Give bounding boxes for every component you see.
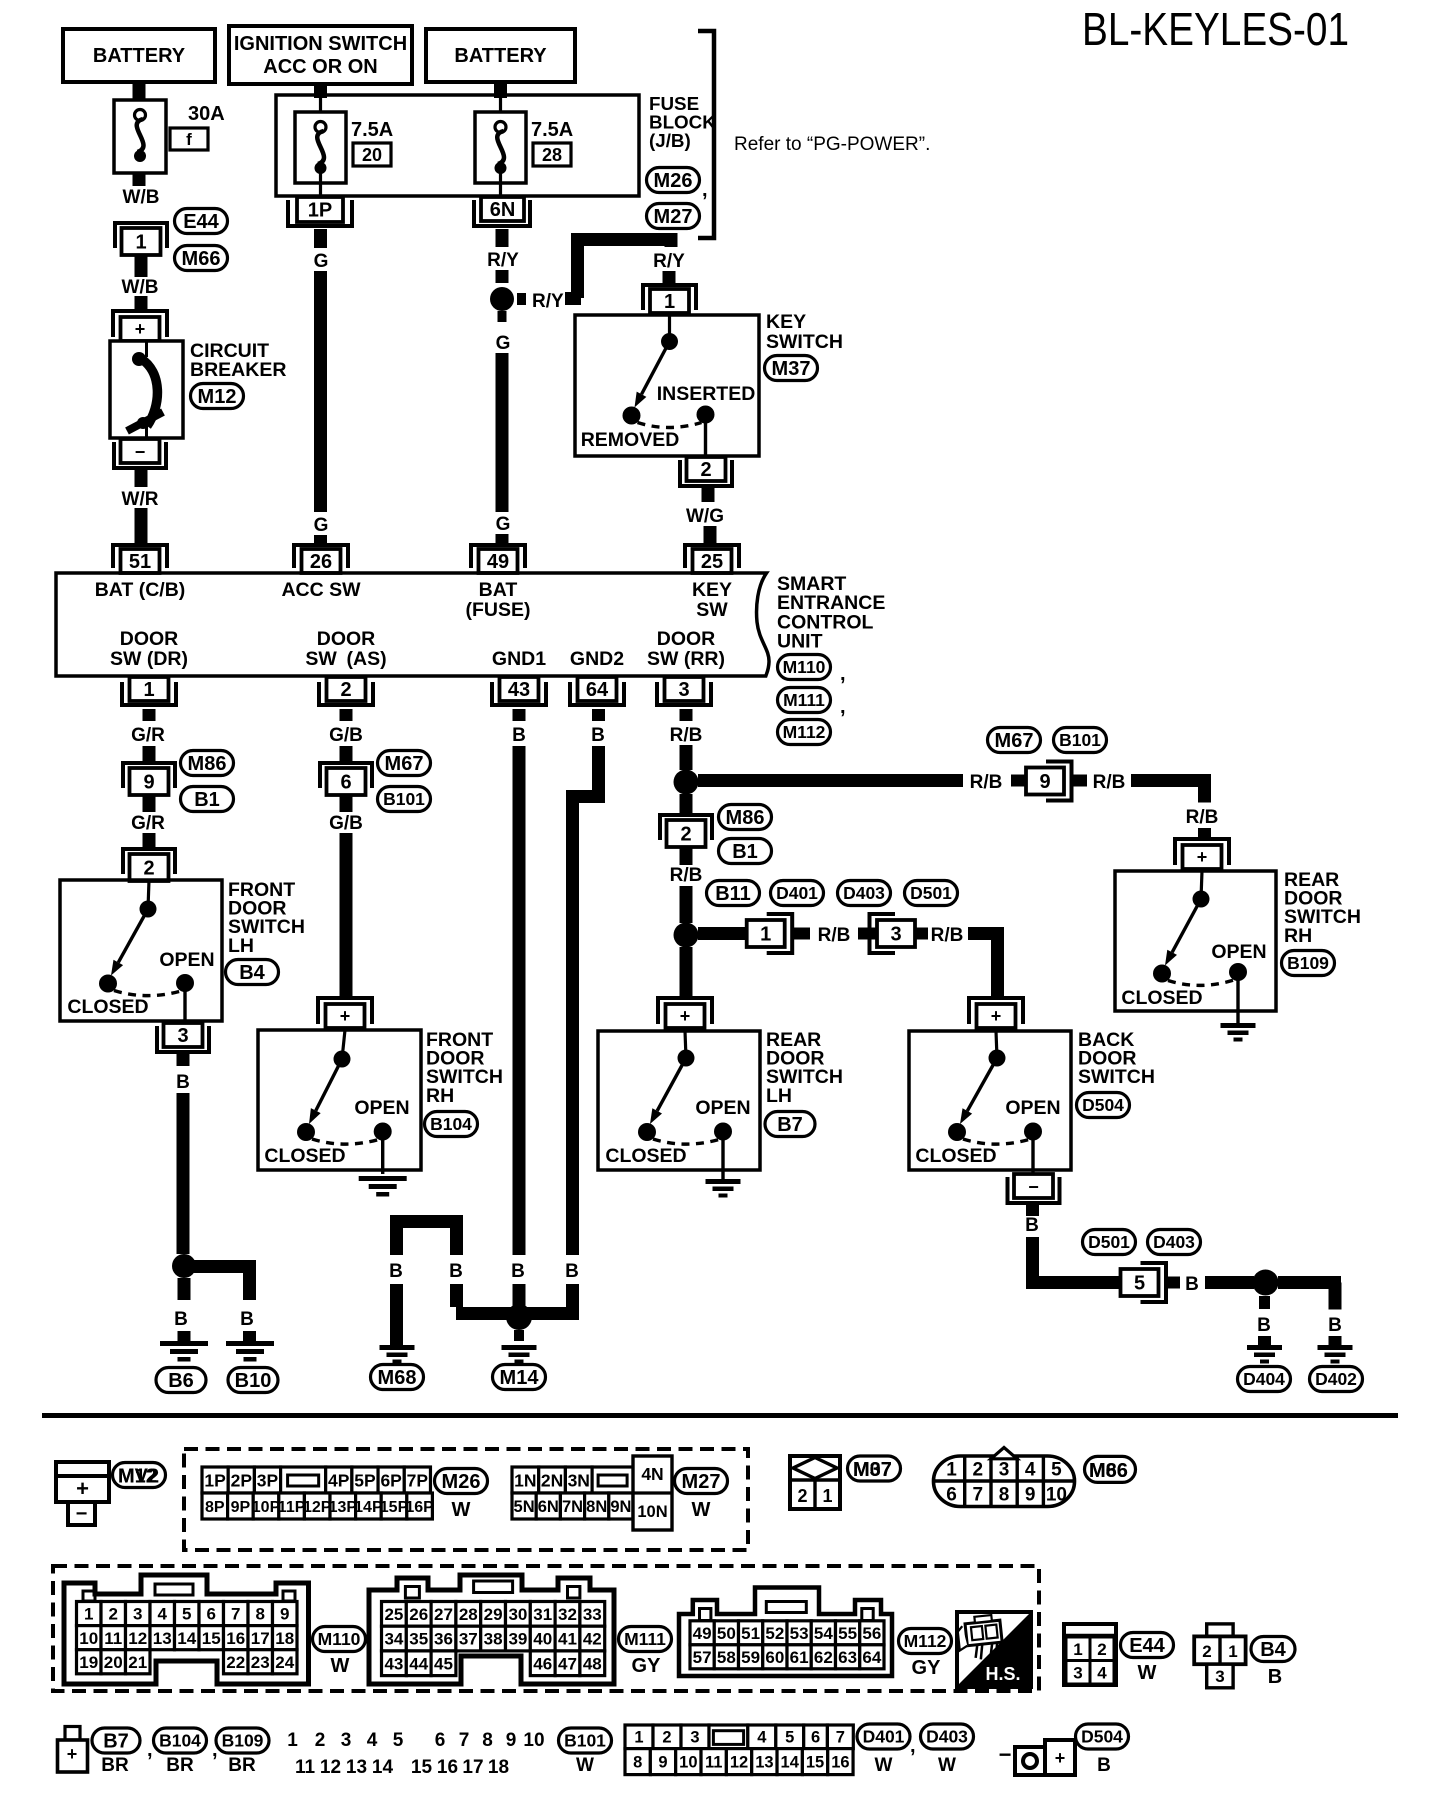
svg-text:36: 36 bbox=[434, 1630, 453, 1649]
svg-text:62: 62 bbox=[814, 1648, 833, 1667]
svg-text:UNIT: UNIT bbox=[777, 631, 823, 653]
svg-text:D501: D501 bbox=[1088, 1232, 1130, 1252]
svg-text:4: 4 bbox=[1025, 1460, 1036, 1481]
svg-text:1: 1 bbox=[822, 1486, 832, 1506]
svg-text:−: − bbox=[135, 442, 146, 462]
svg-text:7: 7 bbox=[973, 1485, 984, 1506]
svg-text:BAT: BAT bbox=[479, 579, 518, 601]
svg-text:25: 25 bbox=[384, 1605, 403, 1624]
svg-text:+: + bbox=[680, 1006, 691, 1026]
svg-text:2: 2 bbox=[797, 1486, 807, 1506]
svg-text:26: 26 bbox=[310, 551, 332, 573]
svg-text:BATTERY: BATTERY bbox=[93, 45, 186, 67]
svg-text:4: 4 bbox=[367, 1730, 378, 1751]
svg-text:2: 2 bbox=[1097, 1640, 1106, 1659]
svg-text:59: 59 bbox=[741, 1648, 760, 1667]
svg-text:29: 29 bbox=[484, 1605, 503, 1624]
svg-text:M86: M86 bbox=[1089, 1460, 1128, 1482]
svg-text:9N: 9N bbox=[610, 1498, 631, 1516]
svg-text:D404: D404 bbox=[1243, 1369, 1285, 1389]
svg-text:,: , bbox=[702, 179, 708, 201]
svg-text:5P: 5P bbox=[354, 1470, 376, 1490]
svg-text:3: 3 bbox=[999, 1460, 1010, 1481]
svg-text:M112: M112 bbox=[783, 722, 826, 742]
svg-text:37: 37 bbox=[459, 1630, 478, 1649]
svg-text:+: + bbox=[1055, 1748, 1066, 1768]
svg-text:8: 8 bbox=[999, 1485, 1010, 1506]
svg-text:B6: B6 bbox=[168, 1370, 194, 1392]
svg-text:R/Y: R/Y bbox=[653, 251, 685, 272]
svg-text:,: , bbox=[840, 696, 846, 718]
svg-text:R/B: R/B bbox=[670, 865, 703, 886]
svg-text:SW (AS): SW (AS) bbox=[305, 648, 386, 670]
svg-text:G/B: G/B bbox=[329, 813, 363, 834]
svg-text:6P: 6P bbox=[380, 1470, 402, 1490]
svg-text:7: 7 bbox=[231, 1605, 240, 1624]
svg-text:18: 18 bbox=[488, 1757, 509, 1778]
svg-text:M12: M12 bbox=[198, 386, 237, 408]
svg-text:2: 2 bbox=[973, 1460, 984, 1481]
svg-text:6: 6 bbox=[340, 772, 351, 794]
svg-text:44: 44 bbox=[409, 1654, 428, 1673]
svg-text:M68: M68 bbox=[378, 1367, 417, 1389]
svg-text:1: 1 bbox=[143, 679, 154, 701]
svg-text:1P: 1P bbox=[204, 1470, 226, 1490]
svg-text:11: 11 bbox=[104, 1629, 122, 1648]
svg-text:7: 7 bbox=[836, 1729, 845, 1747]
svg-text:B: B bbox=[1257, 1315, 1271, 1336]
svg-text:IGNITION SWITCH: IGNITION SWITCH bbox=[234, 33, 407, 55]
svg-text:ACC SW: ACC SW bbox=[281, 579, 361, 601]
svg-text:13: 13 bbox=[153, 1629, 172, 1648]
svg-text:5: 5 bbox=[182, 1605, 191, 1624]
svg-text:52: 52 bbox=[765, 1624, 784, 1643]
svg-text:28: 28 bbox=[542, 145, 562, 165]
svg-text:OPEN: OPEN bbox=[159, 949, 214, 971]
svg-text:20: 20 bbox=[104, 1653, 123, 1672]
svg-text:12: 12 bbox=[320, 1757, 341, 1778]
svg-text:D504: D504 bbox=[1082, 1095, 1124, 1115]
svg-text:W/B: W/B bbox=[122, 277, 159, 298]
svg-text:6: 6 bbox=[946, 1485, 957, 1506]
svg-text:−: − bbox=[1028, 1177, 1039, 1197]
svg-text:B104: B104 bbox=[159, 1731, 201, 1751]
svg-text:49: 49 bbox=[693, 1624, 712, 1643]
svg-text:10: 10 bbox=[1046, 1485, 1067, 1506]
svg-text:6: 6 bbox=[207, 1605, 216, 1624]
svg-text:GY: GY bbox=[912, 1657, 942, 1679]
svg-text:46: 46 bbox=[533, 1654, 552, 1673]
svg-text:B: B bbox=[240, 1309, 254, 1330]
svg-text:W: W bbox=[1138, 1662, 1157, 1684]
svg-text:H.S.: H.S. bbox=[985, 1664, 1020, 1684]
svg-text:,: , bbox=[147, 1739, 153, 1761]
svg-text:22: 22 bbox=[226, 1653, 245, 1672]
svg-text:BATTERY: BATTERY bbox=[454, 45, 547, 67]
svg-text:26: 26 bbox=[409, 1605, 428, 1624]
svg-text:13: 13 bbox=[346, 1757, 367, 1778]
svg-text:1N: 1N bbox=[514, 1470, 536, 1490]
svg-text:B109: B109 bbox=[1287, 953, 1329, 973]
svg-text:9P: 9P bbox=[231, 1499, 251, 1516]
svg-text:15: 15 bbox=[411, 1757, 433, 1778]
svg-text:G: G bbox=[496, 514, 511, 535]
svg-text:M26: M26 bbox=[442, 1471, 481, 1493]
svg-text:43: 43 bbox=[384, 1654, 403, 1673]
svg-text:BR: BR bbox=[101, 1755, 129, 1776]
svg-text:W: W bbox=[938, 1755, 956, 1776]
svg-text:CLOSED: CLOSED bbox=[67, 996, 148, 1018]
svg-text:16: 16 bbox=[226, 1629, 245, 1648]
svg-text:R/Y: R/Y bbox=[487, 250, 519, 271]
svg-text:SW (DR): SW (DR) bbox=[110, 648, 188, 670]
svg-text:W/G: W/G bbox=[686, 506, 724, 527]
svg-text:2: 2 bbox=[1202, 1642, 1211, 1661]
svg-text:41: 41 bbox=[558, 1630, 577, 1649]
svg-text:DOOR: DOOR bbox=[657, 628, 716, 650]
svg-text:64: 64 bbox=[862, 1648, 881, 1667]
svg-text:R/B: R/B bbox=[970, 772, 1003, 793]
svg-text:W: W bbox=[875, 1755, 893, 1776]
svg-text:9: 9 bbox=[1039, 771, 1050, 793]
svg-text:B: B bbox=[511, 1261, 525, 1282]
svg-text:+: + bbox=[76, 1476, 89, 1501]
svg-text:B: B bbox=[1097, 1755, 1111, 1776]
svg-text:8: 8 bbox=[482, 1730, 493, 1751]
svg-text:15P: 15P bbox=[380, 1499, 409, 1516]
svg-text:KEY: KEY bbox=[766, 311, 806, 333]
svg-text:28: 28 bbox=[459, 1605, 478, 1624]
svg-text:1: 1 bbox=[1228, 1642, 1237, 1661]
svg-text:M110: M110 bbox=[318, 1629, 361, 1649]
svg-text:RH: RH bbox=[1284, 925, 1312, 947]
svg-text:,: , bbox=[840, 663, 846, 685]
svg-text:11: 11 bbox=[295, 1757, 316, 1778]
svg-text:SWITCH: SWITCH bbox=[1078, 1066, 1155, 1088]
svg-text:+: + bbox=[1197, 847, 1208, 867]
svg-text:18: 18 bbox=[275, 1629, 294, 1648]
svg-text:49: 49 bbox=[487, 551, 509, 573]
svg-text:6: 6 bbox=[811, 1729, 820, 1747]
svg-text:M37: M37 bbox=[772, 358, 811, 380]
svg-text:B: B bbox=[565, 1261, 579, 1282]
svg-text:B4: B4 bbox=[1260, 1639, 1286, 1661]
svg-text:61: 61 bbox=[790, 1648, 809, 1667]
svg-text:2: 2 bbox=[143, 858, 154, 880]
svg-text:B1: B1 bbox=[732, 841, 758, 863]
svg-text:55: 55 bbox=[838, 1624, 857, 1643]
svg-text:BR: BR bbox=[166, 1755, 194, 1776]
svg-text:48: 48 bbox=[583, 1654, 602, 1673]
svg-text:2: 2 bbox=[680, 824, 691, 846]
svg-text:14: 14 bbox=[781, 1754, 800, 1772]
svg-text:14: 14 bbox=[177, 1629, 196, 1648]
svg-text:−: − bbox=[999, 1742, 1012, 1767]
svg-text:1: 1 bbox=[1073, 1640, 1082, 1659]
svg-text:43: 43 bbox=[508, 679, 530, 701]
svg-text:3: 3 bbox=[1073, 1663, 1082, 1682]
svg-text:14: 14 bbox=[372, 1757, 394, 1778]
svg-text:B: B bbox=[1025, 1215, 1039, 1236]
svg-text:1: 1 bbox=[84, 1605, 93, 1624]
svg-text:34: 34 bbox=[384, 1630, 403, 1649]
svg-text:7N: 7N bbox=[562, 1498, 583, 1516]
svg-text:2: 2 bbox=[109, 1605, 118, 1624]
svg-text:B109: B109 bbox=[222, 1731, 264, 1751]
svg-text:B7: B7 bbox=[103, 1731, 129, 1753]
svg-text:23: 23 bbox=[251, 1653, 270, 1672]
svg-text:50: 50 bbox=[717, 1624, 736, 1643]
svg-text:+: + bbox=[340, 1006, 351, 1026]
svg-text:D403: D403 bbox=[843, 883, 885, 903]
svg-text:12P: 12P bbox=[303, 1499, 332, 1516]
svg-text:3: 3 bbox=[690, 1729, 699, 1747]
svg-text:4P: 4P bbox=[328, 1470, 350, 1490]
svg-text:B: B bbox=[1185, 1274, 1199, 1295]
svg-text:9: 9 bbox=[1025, 1485, 1036, 1506]
svg-text:51: 51 bbox=[741, 1624, 760, 1643]
svg-text:D504: D504 bbox=[1081, 1727, 1123, 1747]
svg-text:24: 24 bbox=[275, 1653, 294, 1672]
svg-text:R/B: R/B bbox=[1093, 772, 1126, 793]
svg-text:D403: D403 bbox=[926, 1727, 968, 1747]
svg-text:6N: 6N bbox=[490, 199, 516, 221]
svg-text:16: 16 bbox=[831, 1754, 849, 1772]
svg-text:OPEN: OPEN bbox=[695, 1097, 750, 1119]
svg-text:8N: 8N bbox=[586, 1498, 607, 1516]
svg-text:47: 47 bbox=[558, 1654, 577, 1673]
svg-text:CLOSED: CLOSED bbox=[1121, 987, 1202, 1009]
svg-text:B: B bbox=[1268, 1666, 1282, 1688]
svg-text:56: 56 bbox=[862, 1624, 881, 1643]
svg-text:2: 2 bbox=[315, 1730, 326, 1751]
svg-text:2: 2 bbox=[662, 1729, 671, 1747]
svg-text:G: G bbox=[314, 251, 329, 272]
svg-text:5: 5 bbox=[1051, 1460, 1062, 1481]
svg-text:SWITCH: SWITCH bbox=[766, 331, 843, 353]
svg-text:3: 3 bbox=[678, 679, 689, 701]
svg-text:M67: M67 bbox=[385, 753, 424, 775]
svg-text:2N: 2N bbox=[541, 1470, 563, 1490]
svg-text:63: 63 bbox=[838, 1648, 857, 1667]
svg-text:G/R: G/R bbox=[131, 813, 165, 834]
svg-text:R/B: R/B bbox=[931, 925, 964, 946]
svg-text:+: + bbox=[67, 1744, 78, 1764]
svg-text:39: 39 bbox=[508, 1630, 527, 1649]
svg-text:BREAKER: BREAKER bbox=[190, 359, 286, 381]
svg-text:10P: 10P bbox=[252, 1499, 281, 1516]
svg-text:G/R: G/R bbox=[131, 725, 165, 746]
svg-text:OPEN: OPEN bbox=[1211, 941, 1266, 963]
svg-text:GND1: GND1 bbox=[492, 648, 546, 670]
svg-text:B10: B10 bbox=[235, 1370, 272, 1392]
svg-text:30: 30 bbox=[508, 1605, 527, 1624]
svg-text:10N: 10N bbox=[637, 1503, 667, 1521]
svg-text:19: 19 bbox=[79, 1653, 98, 1672]
svg-text:B: B bbox=[449, 1261, 463, 1282]
svg-text:6N: 6N bbox=[538, 1498, 559, 1516]
svg-text:3P: 3P bbox=[257, 1470, 279, 1490]
svg-text:40: 40 bbox=[533, 1630, 552, 1649]
svg-text:INSERTED: INSERTED bbox=[657, 383, 756, 405]
svg-text:(J/B): (J/B) bbox=[649, 130, 691, 151]
svg-text:12: 12 bbox=[730, 1754, 748, 1772]
svg-text:1: 1 bbox=[287, 1730, 298, 1751]
svg-text:OPEN: OPEN bbox=[1005, 1097, 1060, 1119]
svg-text:2: 2 bbox=[700, 459, 711, 481]
svg-text:E44: E44 bbox=[1129, 1635, 1165, 1657]
svg-text:R/B: R/B bbox=[1186, 807, 1219, 828]
svg-text:8P: 8P bbox=[205, 1499, 225, 1516]
svg-text:17: 17 bbox=[462, 1757, 483, 1778]
svg-text:54: 54 bbox=[814, 1624, 833, 1643]
svg-text:B1: B1 bbox=[194, 789, 220, 811]
svg-text:GY: GY bbox=[632, 1655, 662, 1677]
svg-text:−: − bbox=[76, 1503, 88, 1525]
svg-text:+: + bbox=[135, 319, 146, 339]
svg-text:M111: M111 bbox=[783, 690, 825, 710]
svg-text:32: 32 bbox=[558, 1605, 577, 1624]
svg-text:35: 35 bbox=[409, 1630, 428, 1649]
svg-text:(FUSE): (FUSE) bbox=[466, 599, 531, 621]
svg-text:1: 1 bbox=[760, 924, 771, 946]
svg-text:10: 10 bbox=[523, 1730, 544, 1751]
svg-text:64: 64 bbox=[586, 679, 609, 701]
svg-text:7: 7 bbox=[459, 1730, 470, 1751]
svg-text:1: 1 bbox=[135, 232, 146, 254]
svg-text:9: 9 bbox=[658, 1754, 667, 1772]
svg-text:M14: M14 bbox=[500, 1367, 540, 1389]
svg-text:5N: 5N bbox=[514, 1498, 535, 1516]
svg-text:M112: M112 bbox=[904, 1631, 947, 1651]
svg-text:M110: M110 bbox=[783, 657, 826, 677]
svg-text:,: , bbox=[910, 1735, 916, 1757]
svg-text:21: 21 bbox=[128, 1653, 147, 1672]
svg-text:5: 5 bbox=[1134, 1273, 1145, 1295]
svg-text:W: W bbox=[452, 1499, 471, 1521]
svg-text:7P: 7P bbox=[407, 1470, 429, 1490]
svg-text:7.5A: 7.5A bbox=[531, 119, 573, 141]
svg-text:M67: M67 bbox=[995, 730, 1034, 752]
svg-text:4: 4 bbox=[158, 1605, 168, 1624]
svg-text:9: 9 bbox=[143, 772, 154, 794]
svg-text:45: 45 bbox=[434, 1654, 453, 1673]
svg-text:38: 38 bbox=[484, 1630, 503, 1649]
svg-text:1P: 1P bbox=[308, 200, 332, 222]
svg-text:27: 27 bbox=[434, 1605, 453, 1624]
svg-text:W/R: W/R bbox=[122, 489, 159, 510]
svg-text:4: 4 bbox=[1097, 1663, 1107, 1682]
svg-text:16P: 16P bbox=[405, 1499, 434, 1516]
svg-text:MV2: MV2 bbox=[118, 1466, 159, 1488]
svg-text:GND2: GND2 bbox=[570, 648, 624, 670]
svg-text:10: 10 bbox=[79, 1629, 98, 1648]
svg-text:2: 2 bbox=[340, 679, 351, 701]
svg-text:42: 42 bbox=[583, 1630, 602, 1649]
svg-text:5: 5 bbox=[785, 1729, 794, 1747]
svg-text:B7: B7 bbox=[777, 1114, 803, 1136]
svg-text:R/B: R/B bbox=[670, 725, 703, 746]
svg-text:4: 4 bbox=[757, 1729, 767, 1747]
svg-text:4N: 4N bbox=[641, 1464, 663, 1484]
svg-text:M27: M27 bbox=[654, 206, 693, 228]
svg-text:D402: D402 bbox=[1315, 1369, 1357, 1389]
svg-text:5: 5 bbox=[393, 1730, 404, 1751]
svg-text:3: 3 bbox=[177, 1025, 188, 1047]
svg-text:2P: 2P bbox=[231, 1470, 253, 1490]
svg-text:B101: B101 bbox=[383, 789, 425, 809]
svg-text:RH: RH bbox=[426, 1085, 454, 1107]
svg-text:D401: D401 bbox=[863, 1727, 905, 1747]
svg-text:M66: M66 bbox=[182, 248, 221, 270]
svg-text:7.5A: 7.5A bbox=[351, 119, 393, 141]
svg-text:1: 1 bbox=[634, 1729, 643, 1747]
svg-text:B: B bbox=[591, 725, 605, 746]
svg-text:D401: D401 bbox=[776, 883, 818, 903]
svg-text:31: 31 bbox=[533, 1605, 552, 1624]
svg-text:B: B bbox=[512, 725, 526, 746]
svg-text:W: W bbox=[576, 1755, 594, 1776]
svg-text:8: 8 bbox=[633, 1754, 642, 1772]
svg-text:B101: B101 bbox=[1059, 730, 1101, 750]
svg-text:3: 3 bbox=[341, 1730, 352, 1751]
svg-text:W: W bbox=[331, 1655, 350, 1677]
svg-text:BAT (C/B): BAT (C/B) bbox=[95, 579, 186, 601]
svg-text:LH: LH bbox=[228, 935, 254, 957]
svg-text:REMOVED: REMOVED bbox=[581, 429, 680, 451]
svg-text:+: + bbox=[991, 1006, 1002, 1026]
svg-text:B101: B101 bbox=[564, 1731, 606, 1751]
svg-text:CLOSED: CLOSED bbox=[915, 1145, 996, 1167]
svg-text:33: 33 bbox=[583, 1605, 602, 1624]
svg-text:G: G bbox=[314, 515, 329, 536]
svg-text:f: f bbox=[186, 130, 192, 149]
svg-text:53: 53 bbox=[790, 1624, 809, 1643]
svg-text:14P: 14P bbox=[354, 1499, 383, 1516]
svg-text:CLOSED: CLOSED bbox=[605, 1145, 686, 1167]
svg-text:M111: M111 bbox=[624, 1629, 666, 1649]
svg-text:11P: 11P bbox=[278, 1499, 306, 1516]
svg-text:11: 11 bbox=[705, 1754, 722, 1772]
svg-text:9: 9 bbox=[506, 1730, 517, 1751]
svg-text:G: G bbox=[496, 333, 511, 354]
svg-text:25: 25 bbox=[701, 551, 723, 573]
svg-text:M07: M07 bbox=[853, 1459, 892, 1481]
svg-text:B: B bbox=[389, 1261, 403, 1282]
svg-text:60: 60 bbox=[765, 1648, 784, 1667]
svg-text:M86: M86 bbox=[188, 753, 227, 775]
svg-text:M86: M86 bbox=[726, 807, 765, 829]
svg-text:51: 51 bbox=[129, 551, 151, 573]
svg-text:OPEN: OPEN bbox=[354, 1097, 409, 1119]
svg-text:LH: LH bbox=[766, 1085, 792, 1107]
svg-text:B: B bbox=[1328, 1315, 1342, 1336]
svg-text:B11: B11 bbox=[715, 883, 751, 905]
svg-text:6: 6 bbox=[435, 1730, 446, 1751]
svg-text:M26: M26 bbox=[654, 170, 693, 192]
svg-text:8: 8 bbox=[256, 1605, 265, 1624]
svg-text:BL-KEYLES-01: BL-KEYLES-01 bbox=[1082, 3, 1349, 55]
svg-text:3: 3 bbox=[890, 924, 901, 946]
svg-text:SW (RR): SW (RR) bbox=[647, 648, 725, 670]
svg-text:15: 15 bbox=[202, 1629, 221, 1648]
svg-text:3: 3 bbox=[1215, 1667, 1224, 1686]
svg-text:DOOR: DOOR bbox=[317, 628, 376, 650]
svg-text:W/B: W/B bbox=[123, 187, 160, 208]
svg-text:ACC OR ON: ACC OR ON bbox=[263, 56, 377, 78]
svg-text:CLOSED: CLOSED bbox=[264, 1145, 345, 1167]
svg-text:D403: D403 bbox=[1153, 1232, 1195, 1252]
